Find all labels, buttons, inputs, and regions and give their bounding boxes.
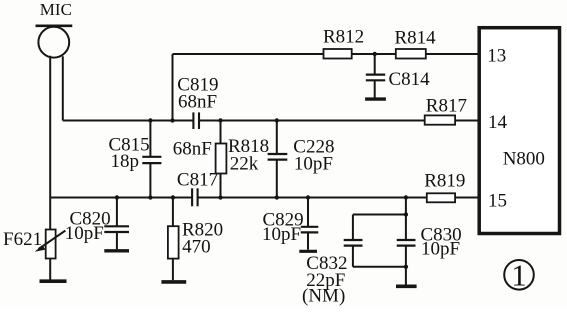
wire mid rail right segment xyxy=(199,120,479,122)
svg-text:(NM): (NM) xyxy=(302,285,345,306)
resistor R819 xyxy=(427,193,455,202)
node R818 bottom xyxy=(218,195,222,199)
svg-text:22k: 22k xyxy=(230,154,259,175)
svg-text:R814: R814 xyxy=(395,27,437,48)
svg-text:R812: R812 xyxy=(323,27,364,48)
capacitor C832 xyxy=(344,240,363,267)
svg-text:10pF: 10pF xyxy=(65,223,104,244)
microphone MIC xyxy=(36,26,73,58)
node C815 mid rail xyxy=(148,118,152,122)
ground below F621 xyxy=(40,279,67,283)
ground below R820 xyxy=(161,280,186,284)
wire C832 top link xyxy=(353,214,406,216)
wire bottom rail right segment xyxy=(198,197,479,199)
node R818 top xyxy=(218,118,222,122)
IC N800 xyxy=(479,28,559,234)
capacitor C815 xyxy=(142,121,161,198)
svg-text:10pF: 10pF xyxy=(421,238,460,259)
ground below C814 xyxy=(365,97,386,100)
wire C832 left branch upper xyxy=(352,215,354,240)
resistor R817 xyxy=(425,115,455,124)
node C832 bottom xyxy=(404,265,408,269)
svg-text:10pF: 10pF xyxy=(262,224,301,245)
node C830 rail xyxy=(404,195,408,199)
wire mid rail left segment xyxy=(63,120,193,122)
node C815 bottom xyxy=(148,195,152,199)
svg-text:1: 1 xyxy=(511,257,527,292)
wire C830 branch upper xyxy=(405,198,407,240)
svg-text:R819: R819 xyxy=(424,171,465,192)
svg-text:MIC: MIC xyxy=(40,0,72,19)
svg-text:470: 470 xyxy=(182,236,211,257)
node C820 bottom rail xyxy=(115,195,119,199)
resistor R820 xyxy=(168,198,179,281)
capacitor C829 xyxy=(301,198,319,250)
ground below C830 xyxy=(396,284,417,288)
capacitor C817 xyxy=(192,188,198,206)
capacitor C820 xyxy=(104,198,129,250)
svg-text:18p: 18p xyxy=(111,151,140,172)
ground below C829 xyxy=(299,250,317,253)
svg-text:10pF: 10pF xyxy=(294,154,333,175)
capacitor C819 xyxy=(193,112,199,129)
svg-text:C817: C817 xyxy=(177,170,218,191)
svg-text:13: 13 xyxy=(487,45,506,66)
svg-text:68nF: 68nF xyxy=(173,139,212,160)
resistor R814 xyxy=(396,49,426,59)
wire C832 bottom link xyxy=(353,266,406,268)
svg-text:15: 15 xyxy=(488,190,507,211)
wire top-rail drop to mid rail xyxy=(172,54,174,121)
node top drop mid rail xyxy=(170,118,174,122)
capacitor C228 xyxy=(268,121,288,198)
ground below C820 xyxy=(104,249,129,252)
wire top rail xyxy=(173,53,479,55)
wire MIC left lead xyxy=(49,56,51,198)
node C829 top xyxy=(306,195,310,199)
wire MIC right lead xyxy=(62,56,64,120)
wire ground stem xyxy=(405,267,407,285)
capacitor C814 xyxy=(366,54,385,98)
node C832 top xyxy=(404,212,408,216)
node C814 top rail xyxy=(373,52,377,56)
svg-text:68nF: 68nF xyxy=(178,91,217,112)
svg-text:C814: C814 xyxy=(389,69,431,90)
svg-text:N800: N800 xyxy=(503,148,545,169)
capacitor C830 xyxy=(397,240,416,267)
node R820 top xyxy=(171,195,175,199)
trimmer F621 xyxy=(35,198,66,280)
resistor R812 xyxy=(324,49,352,59)
symbol circled 1 xyxy=(504,260,534,290)
wire bottom rail left segment xyxy=(50,197,192,199)
svg-text:R817: R817 xyxy=(426,95,467,116)
node C228 top xyxy=(275,118,279,122)
svg-text:14: 14 xyxy=(488,112,508,133)
node C228 bottom xyxy=(275,195,279,199)
svg-text:F621: F621 xyxy=(3,229,42,250)
resistor R818 xyxy=(216,121,227,198)
